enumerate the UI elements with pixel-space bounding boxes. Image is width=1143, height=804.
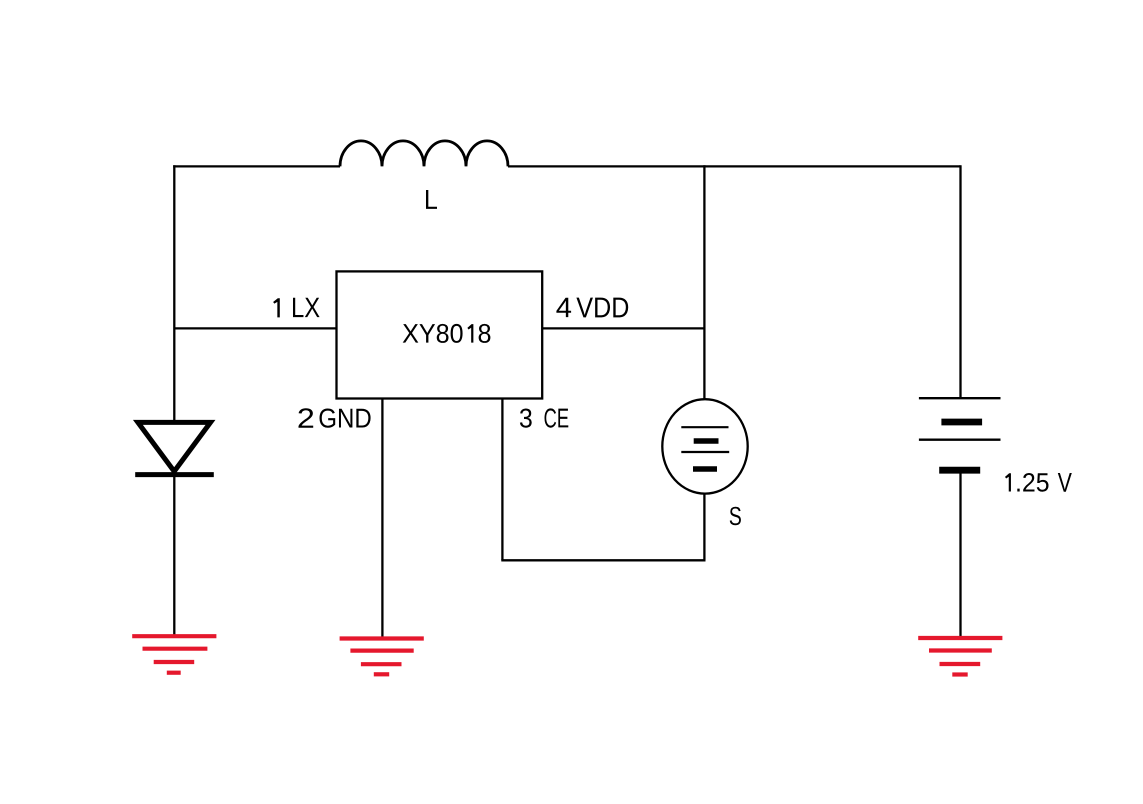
pin label 3 CE — [520, 408, 568, 427]
diode D — [135, 422, 214, 474]
wire mid vertical (VDD node to solar cell) — [703, 165, 705, 400]
wire pin 3 CE vertical — [501, 399, 503, 561]
label S — [730, 507, 741, 526]
battery 1.25 V — [919, 398, 1001, 470]
wire battery to right ground — [959, 470, 961, 637]
ic U1 XY8018 — [337, 271, 543, 398]
wire pin 1 LX — [174, 327, 337, 329]
label 1.25 V — [1005, 473, 1072, 492]
ground middle (red) — [340, 639, 424, 675]
pin label 4 VDD — [556, 298, 628, 318]
wire solar cell bottom — [703, 494, 705, 561]
wire pin 4 VDD — [542, 327, 705, 329]
wire left vertical (top rail down to diode) — [173, 165, 175, 423]
wire diode to left ground — [173, 475, 175, 635]
wire right vertical (top rail to battery) — [959, 165, 961, 398]
pin label 2 GND — [299, 408, 371, 427]
solar cell S — [662, 399, 747, 493]
ground right (red) — [918, 638, 1002, 675]
wire top horizontal (inductor to top-right corner) — [508, 165, 961, 167]
wire CE horizontal — [501, 559, 705, 561]
ground left (red) — [132, 636, 216, 673]
pin label 1 LX — [273, 298, 319, 318]
inductor L — [340, 141, 508, 166]
label L — [426, 190, 437, 209]
wire top-left horizontal (left node to inductor) — [173, 165, 340, 167]
wire pin 2 GND vertical — [381, 399, 383, 638]
